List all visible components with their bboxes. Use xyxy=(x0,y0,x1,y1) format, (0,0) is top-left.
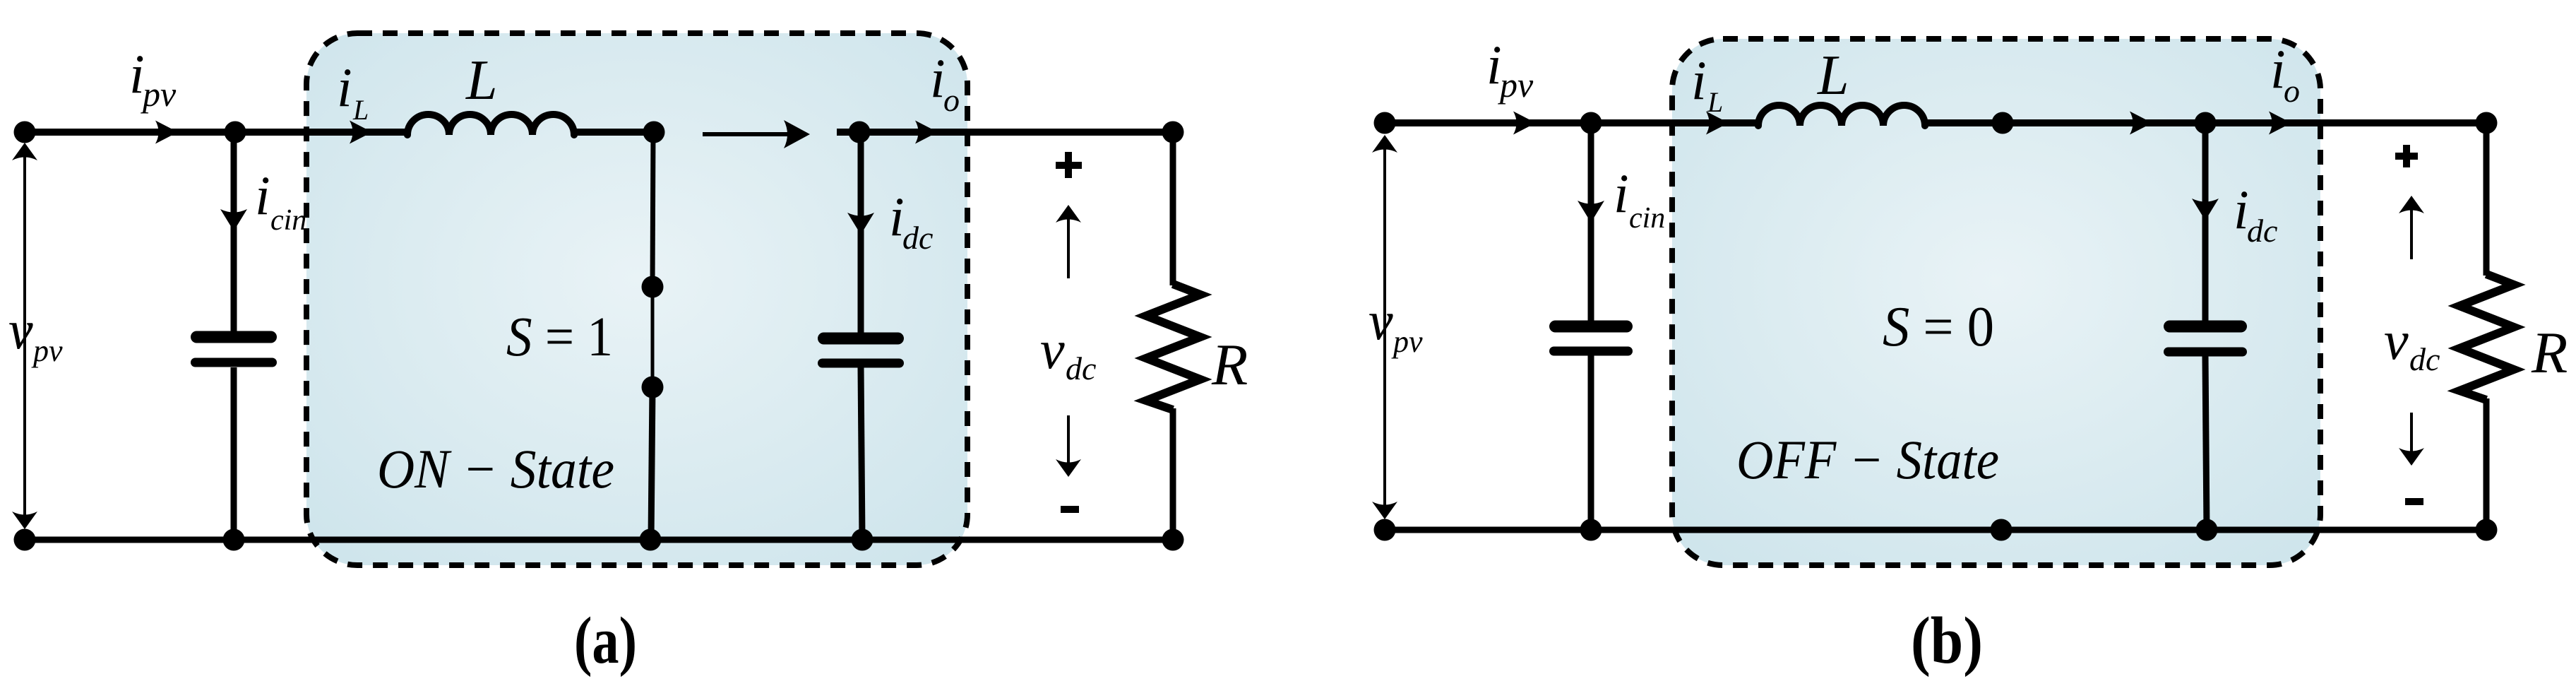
arrow i_L (b) xyxy=(1706,112,1729,135)
svg-text:v: v xyxy=(1368,290,1393,351)
svg-text:o: o xyxy=(2284,73,2300,109)
svg-text:pv: pv xyxy=(1498,65,1534,105)
v_dc measure arrows (b) xyxy=(2399,196,2424,466)
node bottom-left (a) xyxy=(14,529,36,551)
svg-text:pv: pv xyxy=(31,333,63,368)
capacitor Cdc plates (b) xyxy=(2164,321,2247,357)
OFF-state dashed region box (b) xyxy=(1672,39,2320,565)
resistor R upper wire (b) xyxy=(2483,123,2490,276)
svg-text:R: R xyxy=(2531,320,2568,386)
label i_L (a) xyxy=(337,57,369,126)
node switch bottom (a) xyxy=(640,529,662,551)
node cdc top (a) xyxy=(849,122,871,143)
label v_pv (b) xyxy=(1368,290,1423,359)
svg-text:cin: cin xyxy=(270,204,306,237)
svg-text:i: i xyxy=(337,57,352,118)
label i_cin (b) xyxy=(1614,162,1665,235)
svg-text:S = 1: S = 1 xyxy=(506,307,613,368)
arrow i_cin (b) xyxy=(1578,201,1604,223)
svg-text:dc: dc xyxy=(2247,213,2277,249)
arrow mid (b) xyxy=(2130,112,2152,135)
node switch top (a) xyxy=(643,122,665,143)
label i_L (b) xyxy=(1691,49,1723,118)
plus sign (b) xyxy=(2395,145,2418,167)
svg-text:S = 0: S = 0 xyxy=(1883,296,1994,358)
capacitor Cin plates (a) xyxy=(191,331,277,367)
node cin top (a) xyxy=(225,122,246,143)
switch S closed contact (a) xyxy=(651,287,655,387)
capacitor Cdc lower wire (a) xyxy=(861,367,862,540)
svg-text:dc: dc xyxy=(2409,341,2440,377)
svg-text:pv: pv xyxy=(141,74,177,114)
capacitor Cdc plates (a) xyxy=(818,333,904,368)
wire top-left segment (a) xyxy=(25,129,410,136)
svg-text:L: L xyxy=(1707,86,1723,118)
resistor R zigzag (a) xyxy=(1146,284,1200,410)
label v_pv (a) xyxy=(8,299,63,368)
node R top (a) xyxy=(1162,122,1184,143)
ON-state dashed region box (a) xyxy=(306,33,967,565)
svg-text:i: i xyxy=(1691,49,1707,111)
arrow i_L (a) xyxy=(350,121,372,144)
wire top-right segment (b) xyxy=(1923,119,2486,126)
capacitor Cin branch wire (b) xyxy=(1588,123,1594,321)
capacitor Cin branch wire (a) xyxy=(231,132,237,331)
svg-text:L: L xyxy=(1817,45,1849,107)
svg-text:v: v xyxy=(8,299,33,360)
svg-text:(b): (b) xyxy=(1911,604,1983,678)
node cin bottom (a) xyxy=(223,529,245,551)
node bottom-left (b) xyxy=(1374,519,1396,541)
v_dc measure arrows (a) xyxy=(1056,205,1081,477)
label i_pv (a) xyxy=(129,43,177,114)
svg-text:L: L xyxy=(352,94,369,126)
arrow i_dc (a) xyxy=(847,213,874,235)
svg-text:R: R xyxy=(1211,332,1248,398)
wire bottom (a) xyxy=(25,537,1173,543)
switch S branch upper wire (a) xyxy=(652,132,653,287)
label i_cin (a) xyxy=(255,165,306,237)
capacitor Cin lower wire (a) xyxy=(231,367,237,540)
wire top-mid segment (a) xyxy=(572,129,654,136)
node cdc top (b) xyxy=(2195,112,2217,134)
label v_dc (a) xyxy=(1040,319,1096,386)
svg-text:OFF − State: OFF − State xyxy=(1736,429,1999,490)
svg-text:v: v xyxy=(2384,309,2409,371)
node mid bottom (b) xyxy=(1991,519,2012,541)
node cin bottom (b) xyxy=(1580,519,1602,541)
switch S branch lower wire (a) xyxy=(651,387,652,540)
node cdc bottom (b) xyxy=(2196,519,2218,541)
node R bottom (a) xyxy=(1162,529,1184,551)
svg-text:ON − State: ON − State xyxy=(377,438,614,499)
node post-inductor (b) xyxy=(1992,112,2014,134)
svg-text:i: i xyxy=(255,165,270,226)
plus sign (a) xyxy=(1056,152,1082,178)
svg-text:dc: dc xyxy=(902,220,933,256)
switch terminal dot upper (a) xyxy=(642,276,664,298)
svg-text:cin: cin xyxy=(1629,202,1665,235)
svg-text:o: o xyxy=(943,82,960,118)
svg-text:pv: pv xyxy=(1391,324,1423,359)
svg-text:(a): (a) xyxy=(574,604,637,678)
inductor L (b) xyxy=(1758,105,1925,126)
node cin top (b) xyxy=(1580,112,1602,134)
svg-text:i: i xyxy=(1614,162,1629,224)
label i_dc (a) xyxy=(889,186,933,256)
v_pv measure arrow (b) xyxy=(1372,135,1397,519)
capacitor Cdc lower wire (b) xyxy=(2205,356,2207,530)
arrow i_o (b) xyxy=(2269,112,2291,135)
resistor R lower wire (a) xyxy=(1170,408,1176,540)
switch terminal dot lower (a) xyxy=(642,377,664,398)
wire bottom (b) xyxy=(1385,527,2486,533)
label i_o (a) xyxy=(930,47,960,118)
arrow i_dc (b) xyxy=(2192,199,2219,220)
node cdc bottom (a) xyxy=(852,529,873,551)
inductor L (a) xyxy=(407,114,574,135)
capacitor Cdc branch wire (b) xyxy=(2202,123,2209,321)
capacitor Cdc branch wire (a) xyxy=(858,132,864,333)
label i_dc (b) xyxy=(2234,179,2277,249)
node top-left (b) xyxy=(1374,112,1396,134)
node top-left (a) xyxy=(14,122,36,143)
label i_o (b) xyxy=(2270,38,2300,109)
capacitor Cin plates (b) xyxy=(1549,321,1633,356)
arrow i_cin (a) xyxy=(220,209,247,231)
resistor R upper wire (a) xyxy=(1170,132,1176,285)
arrow i_o (a) xyxy=(915,121,938,144)
node R bottom (b) xyxy=(2476,519,2498,541)
floating arrow (a) xyxy=(703,120,810,148)
label i_pv (b) xyxy=(1486,34,1534,105)
label v_dc (b) xyxy=(2384,309,2440,377)
minus sign (b) xyxy=(2405,498,2423,505)
resistor R zigzag (b) xyxy=(2459,274,2514,400)
svg-text:v: v xyxy=(1040,319,1065,380)
arrow i_pv (b) xyxy=(1513,112,1536,135)
wire top-left segment (b) xyxy=(1385,119,1760,126)
svg-text:L: L xyxy=(465,49,498,112)
svg-text:dc: dc xyxy=(1066,350,1096,386)
node R top (b) xyxy=(2476,112,2498,134)
minus sign (a) xyxy=(1061,506,1079,513)
arrow i_pv (a) xyxy=(155,121,178,144)
capacitor Cin lower wire (b) xyxy=(1588,355,1594,530)
resistor R lower wire (b) xyxy=(2483,398,2490,530)
wire top-right segment (a) xyxy=(837,129,1173,136)
v_pv measure arrow (a) xyxy=(12,143,37,529)
